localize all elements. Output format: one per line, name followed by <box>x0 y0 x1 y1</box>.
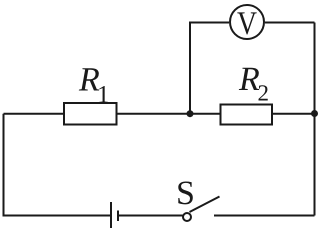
svg-text:V: V <box>237 6 257 42</box>
svg-text:2: 2 <box>258 81 270 106</box>
svg-text:S: S <box>176 175 195 212</box>
svg-text:1: 1 <box>97 81 110 108</box>
